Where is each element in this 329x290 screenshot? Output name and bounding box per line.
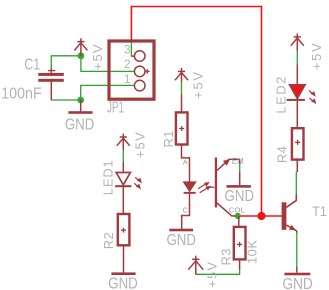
node: green junction at GND: [77, 97, 84, 104]
wire: green T1 emitter to GND: [296, 232, 298, 267]
svg-text:GND: GND: [65, 117, 95, 134]
LED2 cathode to R4: [296, 101, 298, 128]
LED1 light arrow 1: [135, 177, 142, 183]
LED LED2 (filled red): [290, 85, 305, 99]
svg-text:GND: GND: [166, 232, 196, 249]
capacitor C1 top pin stub with tick: [50, 68, 52, 73]
ground symbol GND (opto LED): [169, 229, 193, 232]
LED1 anode stub: [122, 163, 124, 173]
wire: red net right vertical: [261, 7, 263, 217]
resistor R1: [176, 112, 188, 144]
wire: red net COL horizontal to T1 base: [234, 215, 282, 217]
wire: green +5V to R1: [181, 82, 183, 95]
LED1 cathode to R2: [122, 187, 124, 214]
LED LED1 (outline): [116, 173, 130, 185]
node: red junction dot: [257, 212, 265, 220]
capacitor C1 bottom pin stub: [50, 82, 52, 100]
svg-text:2: 2: [124, 57, 131, 71]
svg-text:R3: R3: [218, 249, 233, 266]
resistor R3 bottom stub: [239, 259, 241, 270]
wire: green from junction down and right to JP1 pin 2: [81, 56, 134, 72]
supply +5V symbol (above R1): [175, 68, 188, 82]
LED1 light arrow 2: [134, 183, 141, 189]
wire: green stub into JP1 pin 3: [131, 42, 134, 56]
ground symbol GND (below C1/JP1): [80, 100, 82, 111]
wire: green +5V to LED2: [296, 50, 298, 64]
resistor R1 bottom stub to opto anode: [182, 145, 190, 183]
wire: green bottom horizontal C1 to junction: [51, 99, 81, 101]
supply +5V symbol (above LED2): [291, 34, 304, 51]
svg-text:JP1: JP1: [107, 100, 124, 117]
svg-text:100nF: 100nF: [1, 86, 42, 103]
resistor R4 bottom stub: [296, 160, 298, 172]
supply +5V symbol (top left): [74, 38, 87, 56]
wire: green C1 top vertical: [50, 56, 52, 68]
wire: green top horizontal to +5V junction: [51, 55, 81, 57]
resistor R2: [118, 214, 130, 245]
svg-text:LED2: LED2: [274, 77, 289, 114]
svg-text:+5V: +5V: [90, 44, 105, 70]
svg-text:GND: GND: [282, 276, 313, 290]
optocoupler LED (filled): [184, 182, 196, 191]
node: green junction at R3: [235, 213, 241, 219]
svg-text:T1: T1: [312, 203, 327, 219]
optocoupler emitter with arrow (up-right): [217, 159, 229, 170]
svg-text:C: C: [183, 205, 189, 214]
wire: red net JP1-3 to COL, left vertical: [130, 7, 132, 42]
wire: green emitter to GND: [239, 163, 241, 173]
svg-text:EM: EM: [232, 157, 244, 166]
svg-text:+5V: +5V: [309, 43, 324, 70]
ground symbol GND (below T1): [296, 267, 298, 273]
wire: optocoupler collector pin stub on COL net: [231, 215, 235, 217]
connector JP1 pin 2 cross marker: [145, 70, 150, 72]
resistor R3: [234, 227, 246, 260]
svg-text:R4: R4: [275, 146, 290, 163]
ground symbol GND (below R2): [111, 272, 135, 275]
wire: red net top horizontal: [131, 6, 263, 8]
optocoupler light arrow 2: [200, 186, 215, 193]
svg-text:10K: 10K: [245, 240, 260, 264]
wire: green from bottom junction up and right to JP1 pin 1: [81, 85, 134, 100]
connector JP1 pin 1 circle: [134, 80, 145, 91]
supply +5V symbol (below, near R3): [188, 256, 203, 274]
transistor T1 base bar: [282, 202, 287, 230]
connector JP1 pin 2 circle: [134, 66, 145, 77]
resistor R3 top stub: [238, 216, 240, 227]
optocoupler light arrow 1: [198, 182, 210, 189]
LED2 light arrow 2: [310, 98, 317, 104]
connector JP1 pin 3 circle: [134, 51, 145, 62]
wire: green +5V to LED1: [122, 150, 124, 163]
resistor R2 bottom stub: [123, 245, 125, 272]
svg-text:GND: GND: [108, 275, 138, 290]
wire: green R3 to +5V: [196, 270, 240, 275]
wire: green R4 to T1 collector: [295, 172, 297, 195]
supply +5V symbol (above LED1): [117, 134, 130, 150]
svg-text:R1: R1: [161, 131, 176, 148]
svg-text:A: A: [183, 158, 188, 167]
svg-text:C1: C1: [24, 56, 40, 73]
capacitor C1 bottom plate: [38, 79, 64, 82]
LED2 anode stub: [296, 65, 298, 85]
resistor R4: [292, 128, 304, 159]
svg-text:R2: R2: [101, 232, 116, 249]
optocoupler collector diagonal: [217, 203, 232, 216]
svg-text:LED1: LED1: [101, 160, 116, 195]
node: green junction at +5V: [78, 52, 85, 59]
connector JP1 box: [109, 41, 154, 99]
svg-text:+5V: +5V: [133, 132, 148, 158]
connector JP1 pin 3 stub: [132, 55, 135, 57]
svg-text:3: 3: [124, 42, 131, 56]
resistor R1 top stub: [181, 95, 183, 113]
optocoupler LED cathode path: [182, 193, 190, 229]
optocoupler emitter pin stub: [239, 159, 241, 163]
svg-text:1: 1: [124, 72, 131, 86]
svg-text:+5V: +5V: [191, 72, 206, 99]
capacitor C1 top plate: [38, 73, 64, 76]
LED2 light arrow 1: [309, 91, 316, 97]
transistor T1 emitter with arrow: [286, 225, 296, 231]
svg-text:GND: GND: [225, 188, 255, 205]
ground symbol GND (opto transistor): [239, 172, 241, 185]
optocoupler phototransistor base bar: [215, 158, 217, 208]
svg-text:COL: COL: [229, 205, 245, 214]
transistor T1 collector: [286, 195, 296, 208]
svg-text:+5V: +5V: [205, 262, 220, 288]
